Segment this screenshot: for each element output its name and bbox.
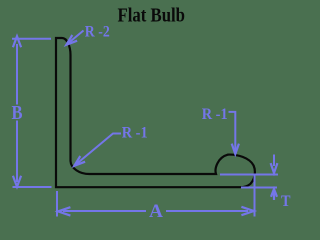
dimension B arrow down bbox=[13, 176, 21, 187]
svg-text:T: T bbox=[281, 193, 291, 210]
dimension A line bbox=[63, 210, 146, 212]
dimension T extension line bottom bbox=[241, 187, 277, 189]
svg-text:A: A bbox=[149, 201, 163, 222]
leader R-1 bulb bbox=[229, 112, 236, 152]
dimension A extension line right bbox=[254, 174, 256, 217]
svg-text:B: B bbox=[12, 103, 23, 124]
svg-text:R -1: R -1 bbox=[122, 124, 148, 141]
svg-text:R -1: R -1 bbox=[202, 106, 228, 123]
dimension B arrow up bbox=[13, 36, 21, 47]
leader R-2 bbox=[67, 31, 84, 45]
arrow R-1 bulb bbox=[232, 144, 239, 154]
dimension B line bbox=[16, 44, 18, 105]
dimension A extension line left bbox=[56, 191, 58, 217]
dimension T extension line top (leg top extended) bbox=[220, 174, 278, 176]
leader R-1 inner bbox=[75, 134, 122, 166]
dimension A arrow right bbox=[241, 207, 253, 215]
dimension A arrow left bbox=[58, 207, 70, 215]
dimension T arrow up (below) bbox=[271, 189, 277, 197]
dimension B extension line bottom bbox=[13, 186, 52, 188]
arrow R-2 bbox=[66, 35, 77, 45]
svg-text:Flat Bulb: Flat Bulb bbox=[118, 5, 186, 27]
dimension B extension line top bbox=[12, 38, 51, 40]
arrow R-1 inner bbox=[74, 156, 85, 166]
profile outline (flat bulb section) bbox=[56, 38, 255, 187]
dimension T arrow down (above) bbox=[273, 155, 275, 167]
svg-text:R -2: R -2 bbox=[85, 24, 110, 41]
